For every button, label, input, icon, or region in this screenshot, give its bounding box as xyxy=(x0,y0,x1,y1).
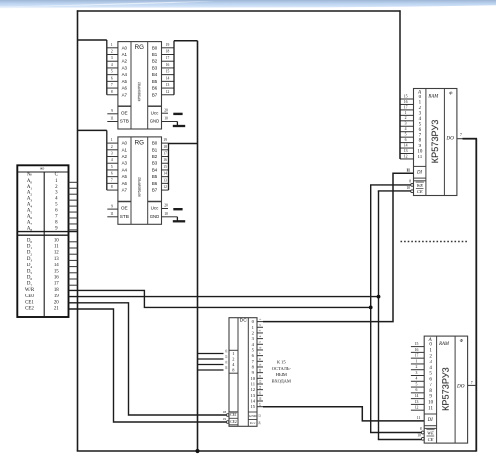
svg-text:19: 19 xyxy=(163,138,167,142)
svg-text:CE1: CE1 xyxy=(25,300,34,305)
svg-text:10: 10 xyxy=(164,212,168,216)
RAM D1 DO output pin 7 xyxy=(445,133,462,142)
svg-text:КР580ИР82: КР580ИР82 xyxy=(138,177,142,196)
svg-text:2: 2 xyxy=(405,116,407,120)
svg-text:14: 14 xyxy=(404,143,408,147)
wire: top address bus H1 xyxy=(77,10,401,12)
DC Ucc pin 24 xyxy=(250,421,262,425)
junction dot V3/H2 xyxy=(195,449,199,453)
svg-text:24: 24 xyxy=(257,421,261,425)
DC input pins from V3 xyxy=(198,349,229,370)
svg-text:CE: CE xyxy=(428,436,434,441)
svg-text:2: 2 xyxy=(111,50,113,54)
svg-text:К 15: К 15 xyxy=(277,359,286,364)
svg-text:6: 6 xyxy=(111,76,113,80)
wire: CE2 net (pin21 to DC) xyxy=(69,309,228,422)
svg-text:CE1: CE1 xyxy=(230,413,237,417)
wire: RG output bus vertical V3 xyxy=(197,41,199,451)
connector X section 2 pin numbers (10-21) xyxy=(54,238,59,311)
RG1 pin 9 OE stub xyxy=(107,113,118,115)
svg-text:20: 20 xyxy=(164,108,168,112)
svg-text:18: 18 xyxy=(163,145,167,149)
RAM D2 header labels A / RAM / phi xyxy=(428,338,464,347)
svg-text:RG: RG xyxy=(135,44,144,51)
RG2 output pins 19-12 xyxy=(162,138,169,190)
svg-text:D7: D7 xyxy=(27,282,33,288)
svg-text:6: 6 xyxy=(111,172,113,176)
RG2 pin 9 OE stub xyxy=(107,208,118,210)
wire: CE0 net (pin19 to CE vertical) xyxy=(69,296,379,298)
svg-text:A6: A6 xyxy=(122,181,128,186)
RAM D1 WE input (inverted) xyxy=(409,180,424,188)
svg-text:A2: A2 xyxy=(122,59,128,64)
svg-text:15: 15 xyxy=(251,404,256,409)
wire: RAM D1 DI stub xyxy=(406,172,414,174)
svg-text:D6: D6 xyxy=(27,276,33,282)
svg-text:9: 9 xyxy=(111,204,113,208)
svg-text:CE0: CE0 xyxy=(25,294,34,299)
RAM D1 DI input xyxy=(406,168,422,175)
svg-text:15: 15 xyxy=(166,70,170,74)
svg-text:12: 12 xyxy=(257,414,261,418)
svg-text:3: 3 xyxy=(111,56,113,60)
svg-text:15: 15 xyxy=(404,94,408,98)
connector X section 1 pin numbers (C,1-9) xyxy=(55,173,58,232)
svg-text:CE2: CE2 xyxy=(25,307,34,312)
svg-text:13: 13 xyxy=(404,149,408,153)
svg-text:11: 11 xyxy=(428,406,433,411)
svg-text:B6: B6 xyxy=(152,86,158,91)
svg-text:22: 22 xyxy=(224,355,228,359)
RAM D1 address labels 0-11 xyxy=(417,95,423,160)
DC CE2 strobe input (inverted) xyxy=(223,417,238,425)
svg-text:КР573РУ3: КР573РУ3 xyxy=(430,120,440,164)
svg-text:A4: A4 xyxy=(122,72,128,77)
svg-text:OE: OE xyxy=(121,110,128,115)
svg-text:GND: GND xyxy=(150,119,160,124)
svg-text:4: 4 xyxy=(416,377,418,381)
svg-text:A0: A0 xyxy=(122,45,128,50)
svg-text:Ucc: Ucc xyxy=(250,421,256,425)
svg-text:17: 17 xyxy=(415,354,419,358)
svg-text:15: 15 xyxy=(258,391,262,395)
wire: bottom data-out bus H2 xyxy=(77,450,477,452)
dotted separator (repetition of RAM banks) xyxy=(401,241,469,243)
svg-text:DC: DC xyxy=(240,317,248,323)
svg-text:5: 5 xyxy=(111,70,113,74)
RG1 input pins 1-8 xyxy=(107,43,118,95)
RG1 output pins 19-12 xyxy=(162,43,175,95)
svg-text:18: 18 xyxy=(54,288,59,293)
svg-text:11: 11 xyxy=(251,381,256,386)
svg-text:D0: D0 xyxy=(27,238,33,244)
svg-text:16: 16 xyxy=(166,63,170,67)
svg-text:Ucc: Ucc xyxy=(151,206,159,211)
svg-text:2: 2 xyxy=(232,357,234,362)
svg-text:B7: B7 xyxy=(152,188,158,193)
connector X section 1 labels (№, A0-A8) xyxy=(27,172,33,232)
svg-text:RAM: RAM xyxy=(427,94,439,99)
svg-text:НЫМ: НЫМ xyxy=(276,372,287,377)
RG2 pin 20 Ucc stub + power bar xyxy=(162,208,169,210)
svg-text:DI: DI xyxy=(427,418,433,423)
svg-text:16: 16 xyxy=(258,397,262,401)
wire: DC output 15 to RAM D2 DI xyxy=(263,407,424,421)
svg-text:CE: CE xyxy=(417,189,423,194)
svg-text:A3: A3 xyxy=(122,65,128,70)
svg-text:D3: D3 xyxy=(27,257,33,263)
RG2 output labels B0-B7 xyxy=(152,141,158,193)
svg-text:5: 5 xyxy=(416,382,418,386)
wire: RG1 input bus from V1 xyxy=(78,39,107,41)
wire: W/R net (pin18 to WE vertical) xyxy=(69,290,371,307)
svg-text:OE: OE xyxy=(121,206,128,211)
svg-text:13: 13 xyxy=(54,257,59,262)
svg-text:20: 20 xyxy=(54,300,59,305)
svg-text:12: 12 xyxy=(404,154,408,158)
RAM D1 KR573RU3 body xyxy=(414,89,457,196)
svg-text:10: 10 xyxy=(428,401,434,406)
DC GND pin 12 xyxy=(248,412,261,420)
svg-text:13: 13 xyxy=(166,83,170,87)
svg-text:WE: WE xyxy=(416,182,423,187)
svg-text:16: 16 xyxy=(404,100,408,104)
svg-text:A3: A3 xyxy=(122,161,128,166)
svg-text:С: С xyxy=(55,173,58,178)
wire: RG2 input bus from V1 xyxy=(78,129,107,131)
svg-text:A5: A5 xyxy=(122,79,128,84)
svg-text:11: 11 xyxy=(417,416,421,420)
svg-text:13: 13 xyxy=(163,178,167,182)
RAM D2 KR573RU3 body xyxy=(424,336,467,443)
svg-text:14: 14 xyxy=(163,172,167,176)
svg-text:18: 18 xyxy=(166,50,170,54)
RAM D2 address pins xyxy=(411,342,424,410)
svg-text:6: 6 xyxy=(405,138,407,142)
svg-text:10: 10 xyxy=(417,434,421,438)
svg-text:6: 6 xyxy=(416,388,418,392)
svg-text:1: 1 xyxy=(111,43,113,47)
svg-text:10: 10 xyxy=(258,368,262,372)
svg-text:21: 21 xyxy=(54,307,59,312)
RG2 pin 11 STB stub xyxy=(107,216,118,218)
svg-text:A1: A1 xyxy=(122,147,128,152)
svg-text:17: 17 xyxy=(54,282,59,287)
wire: WE to RAM D2 xyxy=(370,432,422,434)
svg-text:15: 15 xyxy=(54,269,59,274)
wire: left bus vertical V1 xyxy=(77,10,79,451)
svg-text:19: 19 xyxy=(223,417,227,421)
svg-text:Φ: Φ xyxy=(460,338,464,343)
svg-text:STB: STB xyxy=(120,119,129,124)
svg-text:5: 5 xyxy=(405,133,407,137)
RG1 pin 10 GND stub + ground symbol xyxy=(162,121,178,123)
svg-text:12: 12 xyxy=(166,90,170,94)
svg-text:14: 14 xyxy=(415,394,419,398)
svg-text:12: 12 xyxy=(415,406,419,410)
svg-text:20: 20 xyxy=(164,204,168,208)
wire: RAM D2 DO to V2 xyxy=(468,384,477,386)
junction dot W/R xyxy=(369,306,373,310)
svg-text:16: 16 xyxy=(54,276,59,281)
svg-text:GND: GND xyxy=(150,214,160,219)
svg-text:14: 14 xyxy=(54,263,59,268)
svg-text:B2: B2 xyxy=(152,154,158,159)
wire: RAM D1 address feed vertical xyxy=(399,10,401,158)
svg-text:7: 7 xyxy=(460,133,462,137)
svg-text:3: 3 xyxy=(405,122,407,126)
wire: RG1 input pin rail xyxy=(106,40,108,95)
svg-text:A7: A7 xyxy=(122,92,128,97)
svg-text:D4: D4 xyxy=(27,263,33,269)
svg-text:2: 2 xyxy=(416,365,418,369)
svg-text:A2: A2 xyxy=(122,154,128,159)
svg-text:4: 4 xyxy=(405,127,407,131)
DC input labels 1,2,4,8 xyxy=(232,351,235,373)
svg-text:A2: A2 xyxy=(27,191,33,197)
svg-text:11: 11 xyxy=(407,168,411,172)
svg-text:A1: A1 xyxy=(122,52,128,57)
RG1 OE / STB / Ucc / GND labels xyxy=(120,110,160,123)
DC output labels 0-15 xyxy=(251,319,256,409)
RAM D1 header labels A / RAM / phi xyxy=(417,90,453,99)
svg-text:13: 13 xyxy=(251,393,256,398)
svg-text:A3: A3 xyxy=(27,197,33,203)
svg-text:1: 1 xyxy=(405,111,407,115)
svg-text:11: 11 xyxy=(258,374,262,377)
svg-text:A8: A8 xyxy=(27,226,33,232)
svg-text:Ucc: Ucc xyxy=(151,110,159,115)
svg-text:10: 10 xyxy=(54,238,59,243)
svg-text:№: № xyxy=(27,172,32,178)
RG2 input labels A0-A7 xyxy=(122,141,128,193)
connector X address stubs 1-9 to V1 xyxy=(69,182,78,230)
svg-text:15: 15 xyxy=(415,342,419,346)
svg-text:8: 8 xyxy=(111,90,113,94)
svg-text:10: 10 xyxy=(407,186,411,190)
wire: WE to RAM D1 xyxy=(370,184,411,186)
svg-text:B1: B1 xyxy=(152,52,158,57)
svg-text:12: 12 xyxy=(251,387,256,392)
svg-text:19: 19 xyxy=(166,43,170,47)
svg-text:17: 17 xyxy=(166,56,170,60)
svg-text:7: 7 xyxy=(111,83,113,87)
svg-text:21: 21 xyxy=(224,360,228,364)
svg-text:1: 1 xyxy=(232,351,234,356)
svg-text:A7: A7 xyxy=(122,188,128,193)
svg-text:A0: A0 xyxy=(122,141,128,146)
RAM D1 address pins xyxy=(400,94,414,159)
svg-text:W/R: W/R xyxy=(25,288,35,293)
wire: RG2 output bus to V3 xyxy=(169,143,198,145)
DC input weight box xyxy=(229,349,238,351)
svg-text:A0: A0 xyxy=(27,179,33,185)
svg-text:A6: A6 xyxy=(27,215,33,221)
RAM D2 DO output pin 7 xyxy=(456,381,473,390)
junction dot CE0 xyxy=(377,295,381,299)
svg-text:A4: A4 xyxy=(122,167,128,172)
svg-text:9: 9 xyxy=(111,109,113,113)
svg-text:12: 12 xyxy=(54,251,59,256)
svg-text:10: 10 xyxy=(164,117,168,121)
svg-text:RAM: RAM xyxy=(438,342,450,347)
svg-text:11: 11 xyxy=(110,212,114,216)
wire: right DO vertical V2 xyxy=(475,139,477,452)
svg-text:B5: B5 xyxy=(152,174,158,179)
svg-text:5: 5 xyxy=(111,165,113,169)
wire: CE to RAM D1 xyxy=(378,190,411,192)
svg-text:17: 17 xyxy=(404,105,408,109)
svg-text:Ж0: Ж0 xyxy=(40,167,45,171)
decoder DC body xyxy=(229,317,257,426)
svg-text:B3: B3 xyxy=(152,65,158,70)
connector X (external bus) body xyxy=(17,165,77,317)
svg-text:ОСТАЛЬ-: ОСТАЛЬ- xyxy=(272,366,292,371)
RAM D1 CE input (inverted) xyxy=(407,186,424,194)
svg-text:11: 11 xyxy=(54,245,59,250)
svg-text:17: 17 xyxy=(163,152,167,156)
RAM D2 address labels 0-11 xyxy=(428,343,434,412)
svg-text:B2: B2 xyxy=(152,59,158,64)
svg-text:DO: DO xyxy=(445,136,454,142)
svg-text:A6: A6 xyxy=(122,86,128,91)
svg-text:16: 16 xyxy=(163,158,167,162)
svg-text:11: 11 xyxy=(110,117,114,121)
svg-text:13: 13 xyxy=(415,400,419,404)
svg-text:A4: A4 xyxy=(27,203,33,209)
wire: DC output 0 to RAM D1 DI xyxy=(263,173,414,321)
svg-text:10: 10 xyxy=(417,150,423,155)
svg-text:B4: B4 xyxy=(152,167,158,172)
svg-text:14: 14 xyxy=(166,76,170,80)
svg-text:14: 14 xyxy=(251,399,256,404)
svg-text:16: 16 xyxy=(415,348,419,352)
DC CE1 strobe input (inverted) xyxy=(223,410,238,418)
svg-text:B0: B0 xyxy=(152,141,158,146)
svg-text:18: 18 xyxy=(223,410,227,414)
RAM D2 WE input (inverted) xyxy=(420,427,435,435)
RG2 pin 10 GND stub + ground symbol xyxy=(162,216,178,218)
svg-text:B7: B7 xyxy=(152,92,158,97)
svg-text:DI: DI xyxy=(416,170,422,175)
svg-text:19: 19 xyxy=(54,294,59,299)
RG1 input labels A0-A7 xyxy=(122,45,128,97)
svg-text:23: 23 xyxy=(224,349,228,353)
svg-text:4: 4 xyxy=(111,63,113,67)
wire: RG2 output pin rail xyxy=(168,144,170,191)
connector X section 2 labels (D0-D7, W/R, CE0-CE2) xyxy=(25,238,35,311)
register RG1 body xyxy=(118,42,162,129)
wire: RG2 input pin rail xyxy=(106,130,108,190)
svg-text:B5: B5 xyxy=(152,79,158,84)
svg-text:A5: A5 xyxy=(27,209,33,215)
svg-text:B0: B0 xyxy=(152,45,158,50)
svg-text:17: 17 xyxy=(258,402,262,406)
svg-text:11: 11 xyxy=(417,155,422,160)
svg-text:D2: D2 xyxy=(27,251,33,257)
svg-text:B6: B6 xyxy=(152,181,158,186)
RG1 output labels B0-B7 xyxy=(152,45,158,97)
svg-text:8: 8 xyxy=(409,180,411,184)
annotation: to remaining inputs xyxy=(272,359,292,383)
svg-text:20: 20 xyxy=(224,366,228,370)
DC output pins xyxy=(257,318,263,407)
svg-text:ВХОДАМ: ВХОДАМ xyxy=(272,378,291,383)
svg-text:A1: A1 xyxy=(27,185,33,191)
connector X data stubs 10-17 to V1 xyxy=(69,242,78,285)
svg-text:15: 15 xyxy=(163,165,167,169)
svg-text:8: 8 xyxy=(420,427,422,431)
svg-text:RG: RG xyxy=(135,139,144,146)
svg-text:КР580ИР82: КР580ИР82 xyxy=(138,82,142,101)
svg-text:GND: GND xyxy=(249,414,257,418)
svg-text:4: 4 xyxy=(111,158,113,162)
svg-text:2: 2 xyxy=(111,145,113,149)
wire: RAM D1 address rail xyxy=(399,11,401,159)
RAM D2 CE input (inverted) xyxy=(417,434,434,442)
svg-text:7: 7 xyxy=(111,178,113,182)
svg-text:Φ: Φ xyxy=(449,90,453,95)
wire: RG1 output pin rail xyxy=(173,41,175,95)
svg-text:DO: DO xyxy=(456,383,465,389)
RG1 pin 20 Ucc stub + power bar xyxy=(162,112,169,114)
svg-text:D1: D1 xyxy=(27,245,33,251)
wire: RG1 output bus to V3 xyxy=(174,40,198,42)
wire: CE to RAM D2 xyxy=(378,439,422,441)
svg-text:A5: A5 xyxy=(122,174,128,179)
svg-text:7: 7 xyxy=(471,381,473,385)
svg-text:STB: STB xyxy=(120,214,129,219)
svg-text:B4: B4 xyxy=(152,72,158,77)
wire: CE vertical to both RAM CE pins xyxy=(378,191,380,440)
svg-text:D5: D5 xyxy=(27,269,33,275)
svg-text:8: 8 xyxy=(111,185,113,189)
wire: CE1 net (pin20 to DC) xyxy=(69,303,228,415)
svg-text:B3: B3 xyxy=(152,161,158,166)
svg-text:3: 3 xyxy=(111,152,113,156)
svg-text:12: 12 xyxy=(163,185,167,189)
window title bar strip xyxy=(0,0,496,9)
svg-text:1: 1 xyxy=(111,138,113,142)
RG1 pin 11 STB stub xyxy=(107,121,118,123)
wire: RAM D1 DO to V2 xyxy=(457,138,463,140)
svg-text:14: 14 xyxy=(258,385,262,389)
svg-text:КР573РУ3: КР573РУ3 xyxy=(441,367,451,411)
svg-text:13: 13 xyxy=(258,380,262,384)
RAM D2 DI input xyxy=(417,416,433,423)
svg-text:1: 1 xyxy=(416,359,418,363)
svg-text:WE: WE xyxy=(427,430,434,435)
register RG2 body xyxy=(118,137,162,224)
svg-text:3: 3 xyxy=(416,371,418,375)
svg-text:B1: B1 xyxy=(152,147,158,152)
svg-text:10: 10 xyxy=(251,376,256,381)
RG2 input pins 1-8 xyxy=(107,138,118,190)
RG2 OE / STB / Ucc / GND labels xyxy=(120,206,160,219)
svg-text:A7: A7 xyxy=(27,220,33,226)
wire: WE vertical to both RAM WE pins xyxy=(370,185,372,433)
svg-text:CE2: CE2 xyxy=(230,420,237,424)
